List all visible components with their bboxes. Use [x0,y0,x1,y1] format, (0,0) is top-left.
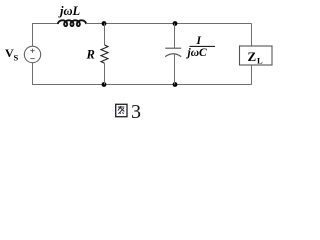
wire bottom rail [32,84,252,86]
load box ZL [240,46,273,65]
node dot bottom-right (capacitor bottom) [173,82,178,87]
svg-text:jωL: jωL [58,4,81,18]
svg-text:I: I [196,35,202,47]
svg-text:S: S [14,53,19,63]
svg-text:R: R [86,47,95,61]
voltage source Vs circle [24,46,40,62]
capacitor top plate [165,47,181,49]
wire top rail: inductor to top-right corner [86,23,252,25]
wire top rail left: source top to inductor [32,23,58,25]
wire right rail upper: corner down to ZL box [251,24,253,47]
svg-text:L: L [257,55,263,65]
resistor R zigzag [101,45,108,63]
fraction bar [190,45,216,47]
node dot bottom-left (resistor bottom) [102,82,107,87]
capacitor bottom plate (curved) [165,54,181,57]
svg-text:3: 3 [131,101,141,123]
inductor L (jwL) coil [58,20,86,26]
wire capacitor top lead [174,24,176,49]
node dot top-left (resistor top) [102,21,107,26]
svg-text:Z: Z [248,49,257,64]
wire resistor bottom lead [104,63,106,84]
wire left rail upper: corner to source [32,24,34,47]
svg-text:jωC: jωC [186,47,208,59]
voltage source plus sign [30,49,34,53]
voltage source minus sign [30,58,34,60]
caption figure glyph (CJK tu) [116,104,127,116]
wire left rail lower: source to bottom rail [32,63,34,85]
wire resistor top lead [104,24,106,46]
node dot top-right (capacitor top) [173,21,178,26]
wire capacitor bottom lead [174,54,176,84]
wire right rail lower: ZL box to bottom rail [251,65,253,85]
